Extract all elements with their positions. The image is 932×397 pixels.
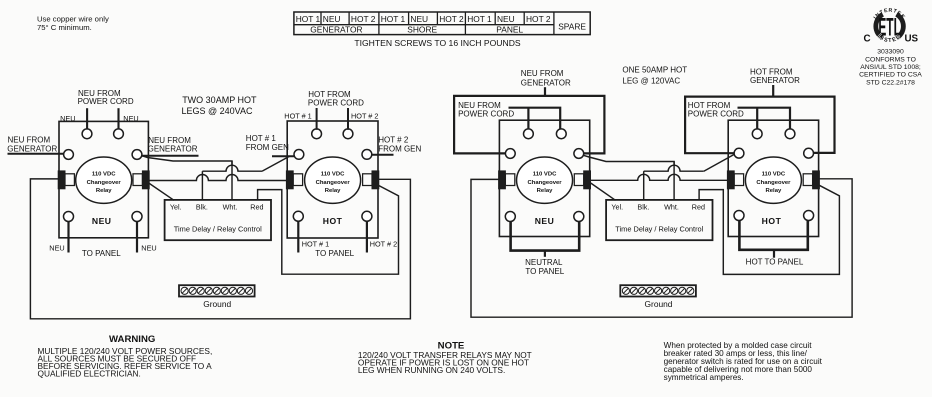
caption: ONE 50AMP HOT LEG @ 120VAC: [622, 65, 687, 85]
svg-text:GENERATOR: GENERATOR: [7, 144, 57, 153]
note: copper wire advisory: [37, 14, 109, 32]
svg-text:Yel.: Yel.: [611, 202, 623, 211]
wire L2: Blk lead to relay B left side terminal (hops Wht): [202, 156, 289, 171]
wire: power cord tick to A top terminal 2: [117, 108, 119, 129]
note paragraph: [358, 341, 532, 375]
wire: power cord tick to B top terminal 1: [316, 108, 318, 130]
svg-text:Ground: Ground: [645, 299, 673, 309]
svg-text:HOT # 2: HOT # 2: [370, 239, 397, 248]
wire: Blk vertical lead into control box (right): [643, 171, 645, 200]
svg-text:WARNING: WARNING: [109, 334, 155, 345]
svg-text:Changeover: Changeover: [316, 180, 351, 186]
svg-text:HOT 1: HOT 1: [381, 14, 406, 24]
svg-text:CERTIFIED TO CSA: CERTIFIED TO CSA: [859, 72, 922, 79]
svg-text:Red: Red: [250, 202, 263, 211]
svg-text:Blk.: Blk.: [196, 202, 208, 211]
wire L1: relay C right terminal to Wht control lead: [583, 155, 674, 166]
svg-text:Time Delay / Relay Control: Time Delay / Relay Control: [174, 225, 262, 234]
svg-text:HOT: HOT: [762, 216, 782, 226]
label NEU (A top terminal 1): [60, 114, 75, 123]
svg-text:QUALIFIED ELECTRICIAN.: QUALIFIED ELECTRICIAN.: [38, 369, 141, 379]
svg-text:Ground: Ground: [203, 299, 231, 309]
svg-text:NEU FROM: NEU FROM: [8, 136, 51, 145]
relay coil circle B: [305, 157, 361, 203]
svg-text:NEU: NEU: [410, 14, 428, 24]
ground bus bar GND2: [620, 285, 696, 309]
wire L3: relay C right contact to relay D left contact: [589, 174, 730, 180]
svg-text:HOT # 1: HOT # 1: [246, 134, 277, 143]
wire: Yel lead from relay C right contact to control box (right): [589, 182, 616, 201]
relay contact right (black) A: [142, 171, 149, 189]
relay coil circle C: [517, 157, 573, 203]
svg-text:Relay: Relay: [766, 188, 782, 194]
svg-text:110 VDC: 110 VDC: [321, 171, 345, 177]
svg-text:TO PANEL: TO PANEL: [315, 249, 354, 258]
wire: Blk vertical lead into control box: [201, 171, 203, 200]
svg-text:75° C minimum.: 75° C minimum.: [37, 23, 92, 32]
svg-text:STD C22.2#178: STD C22.2#178: [866, 79, 915, 86]
svg-text:NEUTRAL: NEUTRAL: [525, 258, 563, 267]
svg-text:110 VDC: 110 VDC: [92, 171, 116, 177]
label NEU inside A: [92, 216, 112, 226]
svg-text:ONE 50AMP HOT: ONE 50AMP HOT: [622, 65, 687, 74]
svg-text:HOT: HOT: [323, 216, 343, 226]
relay contact left (black) C: [499, 171, 506, 189]
wire: outer loop (C left contact - bottom - D right contact): [471, 179, 852, 317]
label HOT # 2 (B bottom 2): [370, 239, 397, 248]
svg-text:HOT 1: HOT 1: [467, 14, 492, 24]
label NEU (A bottom 2): [141, 244, 156, 253]
ETL listed mark logo: [859, 8, 922, 87]
svg-text:GENERATOR: GENERATOR: [148, 145, 198, 154]
wire L1: relay A right terminal to Wht control lead: [142, 156, 233, 166]
svg-text:CONFORMS TO: CONFORMS TO: [865, 56, 916, 63]
label HOT # 1 (B top terminal 1): [284, 112, 311, 121]
svg-text:Blk.: Blk.: [637, 202, 649, 211]
label HOT inside D: [762, 216, 782, 226]
terminals A: bottom pair: [64, 212, 143, 222]
svg-text:110 VDC: 110 VDC: [533, 171, 557, 177]
terminals C: bottom pair: [505, 212, 584, 222]
contact armature squares C: [505, 174, 583, 186]
svg-text:TO PANEL: TO PANEL: [525, 267, 564, 276]
terminals C: top pair: [524, 129, 567, 139]
wire: power cord tick to B top terminal 2: [347, 108, 349, 130]
svg-text:Wht.: Wht.: [664, 202, 679, 211]
relay contact right (black) D: [813, 171, 820, 189]
label NEU (A bottom 1): [49, 244, 64, 253]
label: NEU FROM GENERATOR (above C): [521, 69, 571, 87]
relay contact left (black) A: [58, 171, 65, 189]
svg-text:HOT 1: HOT 1: [296, 14, 321, 24]
svg-text:HOT FROM: HOT FROM: [750, 68, 793, 77]
svg-text:NEU: NEU: [123, 114, 138, 123]
caption: TWO 30AMP HOT LEGS @ 240VAC: [182, 95, 258, 116]
svg-text:GENERATOR: GENERATOR: [310, 25, 362, 35]
note: tighten screws: [354, 38, 521, 48]
terminals A: top pair: [82, 129, 123, 139]
terminals D: side pair: [734, 148, 813, 158]
wire: Red lead loop to relay D right contact: [699, 185, 839, 274]
svg-text:Red: Red: [692, 202, 705, 211]
label: NEUTRAL TO PANEL: [525, 258, 565, 276]
wire: HOT#1 label underline to B left side terminal: [272, 155, 294, 157]
time delay / relay control module TD1: [165, 200, 271, 240]
svg-text:LEG WHEN RUNNING ON 240 VOLTS.: LEG WHEN RUNNING ON 240 VOLTS.: [358, 365, 505, 375]
label: NEU FROM POWER CORD (relay A): [78, 89, 134, 106]
wire: B bottom terminal 1 to panel: [297, 221, 299, 252]
wire: Red lead loop to relay B right contact: [258, 185, 399, 274]
contact armature squares A: [65, 174, 142, 186]
label: HOT FROM POWER CORD (relay B): [308, 90, 364, 108]
svg-text:NEU: NEU: [141, 244, 156, 253]
svg-text:POWER CORD: POWER CORD: [308, 99, 364, 108]
label NEU (A top terminal 2): [123, 114, 138, 123]
ground bus bar GND1: [179, 285, 255, 309]
svg-text:ANSI/UL STD 1008;: ANSI/UL STD 1008;: [860, 64, 921, 71]
label: HOT FROM POWER CORD (D): [688, 101, 744, 119]
svg-text:Time Delay / Relay Control: Time Delay / Relay Control: [615, 225, 703, 234]
svg-text:3033090: 3033090: [877, 49, 904, 56]
svg-text:POWER CORD: POWER CORD: [458, 110, 514, 119]
svg-text:Yel.: Yel.: [170, 202, 182, 211]
relay box A: [59, 121, 148, 237]
label TO PANEL (B): [315, 249, 354, 258]
svg-text:NEU: NEU: [497, 14, 515, 24]
svg-text:Changeover: Changeover: [528, 180, 563, 186]
label HOT # 2 (B top terminal 2): [351, 112, 378, 121]
svg-text:NEU FROM: NEU FROM: [521, 69, 564, 78]
relay coil circle A: [76, 157, 132, 203]
svg-text:C: C: [863, 33, 870, 44]
svg-text:symmetrical amperes.: symmetrical amperes.: [664, 373, 744, 382]
terminals D: top pair: [752, 129, 795, 139]
label: HOT # 2 FROM GEN: [378, 136, 421, 154]
svg-text:POWER CORD: POWER CORD: [688, 110, 744, 119]
svg-text:HOT # 2: HOT # 2: [351, 112, 378, 121]
wire: D power cord to top terminals: [738, 108, 791, 130]
svg-text:TIGHTEN SCREWS TO 16 INCH POUN: TIGHTEN SCREWS TO 16 INCH POUNDS: [354, 38, 521, 48]
terminal strip TB1: [294, 12, 590, 35]
svg-text:Changeover: Changeover: [756, 180, 791, 186]
warning paragraph: [38, 334, 213, 378]
wire: A bottom terminal 2 to panel: [136, 221, 138, 252]
svg-text:TWO 30AMP HOT: TWO 30AMP HOT: [182, 95, 257, 105]
svg-text:Changeover: Changeover: [87, 180, 122, 186]
relay contact right (black) C: [584, 171, 591, 189]
wire: bracket from NEU FROM GENERATOR to C side terminals: [454, 87, 604, 153]
contact armature squares B: [293, 174, 372, 186]
wire: Wht vertical lead into control box (right): [673, 162, 675, 201]
time delay / relay control module TD2: [606, 200, 712, 240]
wire: Yel lead from relay A right contact to control box: [147, 182, 175, 201]
wire: HOT#2 label underline from B right side terminal: [371, 154, 393, 156]
wire: generator neutral to A left side terminal: [8, 153, 65, 155]
svg-text:HOT 2: HOT 2: [351, 14, 376, 24]
svg-text:NEU: NEU: [60, 114, 75, 123]
relay contact right (black) B: [372, 171, 379, 189]
svg-text:US: US: [904, 33, 918, 44]
svg-text:HOT 2: HOT 2: [526, 14, 551, 24]
svg-text:HOT # 2: HOT # 2: [378, 136, 409, 145]
label HOT # 1 (B bottom 1): [302, 239, 329, 248]
wire: B bottom terminal 2 to panel: [366, 221, 368, 252]
svg-text:TO PANEL: TO PANEL: [82, 249, 121, 258]
svg-text:Relay: Relay: [96, 188, 112, 194]
wire: generator neutral label underline (A right terminal): [142, 155, 199, 157]
relay box B: [287, 121, 378, 238]
svg-text:HOT # 1: HOT # 1: [284, 112, 311, 121]
svg-text:Relay: Relay: [325, 188, 341, 194]
svg-text:NEU: NEU: [323, 14, 341, 24]
svg-text:NEU: NEU: [535, 216, 555, 226]
terminals A: side pair: [64, 150, 142, 160]
label: NEU FROM GENERATOR (right of A): [148, 136, 198, 153]
terminals B: side pair: [294, 150, 372, 160]
label TO PANEL (A): [82, 249, 121, 258]
relay box D: [728, 120, 818, 236]
wire: C power cord to top terminals: [509, 108, 561, 130]
svg-text:Wht.: Wht.: [223, 202, 238, 211]
svg-text:POWER CORD: POWER CORD: [78, 97, 134, 106]
wire: D bottom terminals joined to panel: [739, 220, 807, 257]
svg-text:Relay: Relay: [537, 188, 553, 194]
relay box C: [499, 120, 589, 236]
svg-text:FROM GEN: FROM GEN: [246, 143, 289, 152]
svg-text:GENERATOR: GENERATOR: [521, 78, 571, 87]
relay coil circle D: [745, 157, 801, 203]
wire: outer loop (A left contact - bottom - B right contact): [30, 179, 410, 319]
label: HOT # 1 FROM GEN: [246, 134, 289, 152]
svg-text:NEU: NEU: [92, 216, 112, 226]
svg-text:HOT 2: HOT 2: [439, 14, 464, 24]
svg-text:NEU: NEU: [49, 244, 64, 253]
terminals B: top pair: [312, 129, 353, 139]
label NEU inside C: [535, 216, 555, 226]
label: HOT FROM GENERATOR (above D): [750, 68, 800, 86]
svg-text:110 VDC: 110 VDC: [762, 171, 786, 177]
svg-text:SPARE: SPARE: [558, 22, 586, 32]
wire: C bottom terminals joined to panel: [511, 221, 580, 256]
svg-text:PANEL: PANEL: [496, 25, 523, 35]
contact armature squares D: [734, 174, 812, 186]
wire L2: Blk lead to relay D left side terminal (hops Wht): [644, 155, 734, 172]
svg-text:HOT TO PANEL: HOT TO PANEL: [746, 258, 804, 267]
label HOT inside B: [323, 216, 343, 226]
terminals D: bottom pair: [734, 211, 814, 221]
relay contact left (black) D: [727, 171, 734, 189]
label: HOT TO PANEL: [746, 258, 804, 267]
svg-text:GENERATOR: GENERATOR: [750, 76, 800, 85]
wire L3: relay A right contact to relay B left contact (hops Blk,Wht): [147, 175, 288, 181]
relay contact left (black) B: [286, 171, 293, 189]
wire: bracket from HOT FROM GENERATOR to D side terminals: [685, 85, 834, 153]
wire: A bottom terminal 1 to panel: [67, 221, 69, 252]
breaker rating paragraph: [664, 341, 823, 382]
svg-text:LEG @ 120VAC: LEG @ 120VAC: [622, 76, 680, 85]
wire: power cord tick to A top terminal 1: [86, 108, 88, 129]
svg-text:SHORE: SHORE: [407, 25, 437, 35]
svg-text:LEGS @ 240VAC: LEGS @ 240VAC: [182, 106, 254, 116]
terminals B: bottom pair: [293, 211, 372, 221]
label: NEU FROM GENERATOR (left of A): [7, 136, 57, 154]
svg-text:HOT # 1: HOT # 1: [302, 239, 329, 248]
terminals C: side pair: [505, 149, 583, 159]
label: NEU FROM POWER CORD (C): [458, 101, 514, 119]
wire: Wht vertical lead into control box: [231, 161, 233, 200]
svg-text:FROM GEN: FROM GEN: [378, 145, 421, 154]
